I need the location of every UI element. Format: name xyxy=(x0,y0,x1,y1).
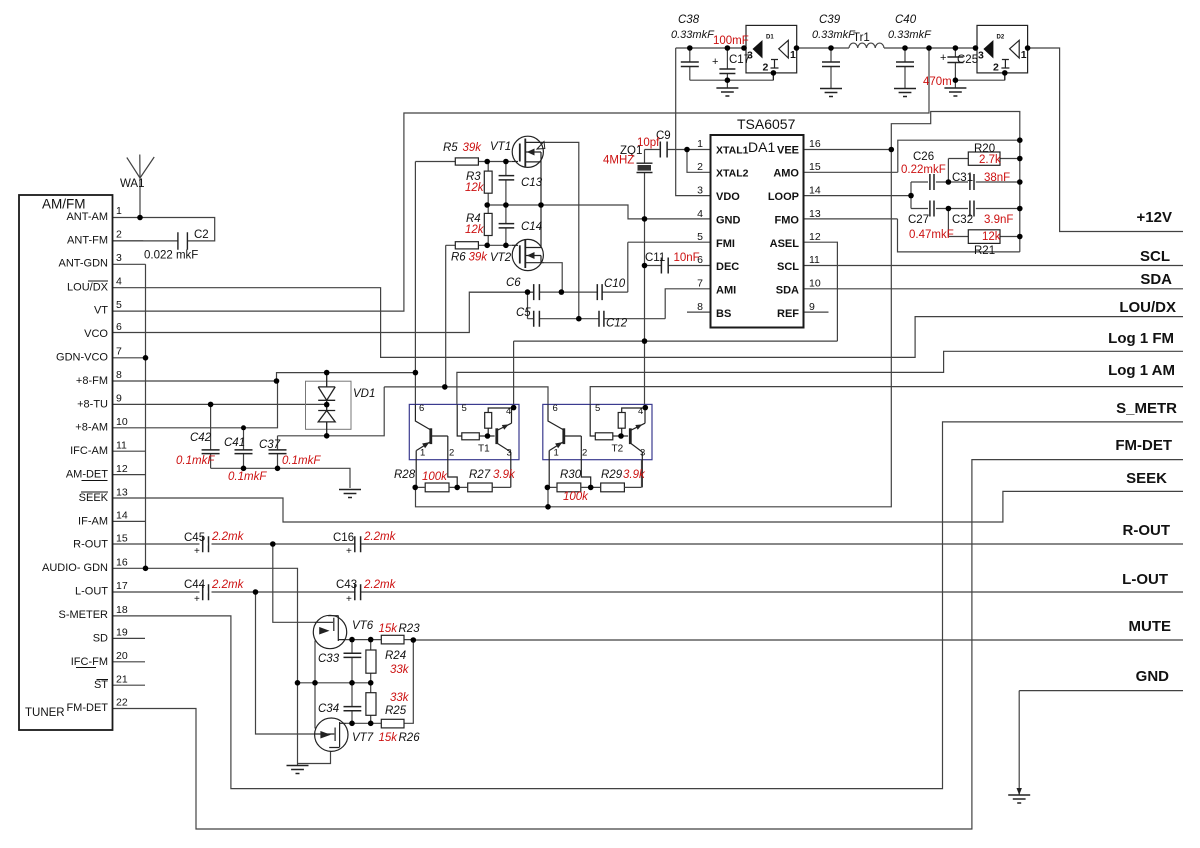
svg-text:C42: C42 xyxy=(190,432,212,444)
svg-text:R21: R21 xyxy=(974,245,995,257)
svg-text:3.9nF: 3.9nF xyxy=(984,214,1013,226)
svg-text:6: 6 xyxy=(419,403,424,414)
svg-text:Tr1: Tr1 xyxy=(853,32,870,44)
svg-text:BS: BS xyxy=(716,308,731,320)
svg-text:3: 3 xyxy=(697,185,703,197)
svg-text:SDA: SDA xyxy=(776,285,799,297)
svg-text:0.33mkF: 0.33mkF xyxy=(812,29,856,41)
svg-text:+: + xyxy=(712,56,718,68)
svg-text:39k: 39k xyxy=(469,252,489,264)
svg-text:LOU/DX: LOU/DX xyxy=(67,282,109,294)
svg-text:FMO: FMO xyxy=(775,215,800,227)
svg-text:C11: C11 xyxy=(645,252,665,264)
svg-text:VT: VT xyxy=(94,305,108,317)
svg-text:33k: 33k xyxy=(390,692,410,704)
svg-text:R29: R29 xyxy=(601,469,623,481)
svg-text:14: 14 xyxy=(116,510,128,522)
svg-text:LOOP: LOOP xyxy=(768,191,799,203)
svg-text:+: + xyxy=(194,594,200,605)
svg-text:R23: R23 xyxy=(399,623,421,635)
svg-text:+: + xyxy=(194,546,200,557)
svg-text:8: 8 xyxy=(116,369,122,381)
svg-text:IFC-AM: IFC-AM xyxy=(70,445,108,457)
svg-text:15: 15 xyxy=(809,161,821,173)
svg-text:4: 4 xyxy=(638,406,643,417)
svg-text:C38: C38 xyxy=(678,14,700,26)
svg-text:ST: ST xyxy=(94,679,108,691)
svg-text:4: 4 xyxy=(697,208,703,220)
svg-text:R24: R24 xyxy=(385,650,406,662)
svg-text:6: 6 xyxy=(116,321,122,333)
svg-text:+: + xyxy=(940,52,946,64)
svg-text:R-OUT: R-OUT xyxy=(1123,522,1171,539)
svg-text:2.2mk: 2.2mk xyxy=(211,531,245,543)
svg-text:0.1mkF: 0.1mkF xyxy=(228,471,267,483)
svg-text:0.47mkF: 0.47mkF xyxy=(909,229,954,241)
svg-text:XTAL1: XTAL1 xyxy=(716,145,749,157)
svg-text:0.22mkF: 0.22mkF xyxy=(901,164,946,176)
svg-text:VCO: VCO xyxy=(84,328,108,340)
svg-text:T2: T2 xyxy=(612,444,624,455)
svg-text:3: 3 xyxy=(116,252,122,264)
svg-text:C45: C45 xyxy=(184,532,205,544)
svg-text:R25: R25 xyxy=(385,705,407,717)
svg-text:C25: C25 xyxy=(957,54,978,66)
svg-text:12: 12 xyxy=(116,463,128,475)
svg-text:T1: T1 xyxy=(478,444,490,455)
svg-text:AM/FM: AM/FM xyxy=(42,197,86,212)
svg-text:2: 2 xyxy=(763,62,769,74)
svg-text:12k: 12k xyxy=(982,231,1001,243)
svg-text:16: 16 xyxy=(809,138,821,150)
svg-text:S_METR: S_METR xyxy=(1116,400,1177,417)
svg-text:20: 20 xyxy=(116,650,128,662)
svg-text:5: 5 xyxy=(595,403,600,414)
svg-text:5: 5 xyxy=(116,299,122,311)
svg-text:VEE: VEE xyxy=(777,145,799,157)
svg-text:DEC: DEC xyxy=(716,261,739,273)
svg-text:C44: C44 xyxy=(184,579,206,591)
svg-text:IF-AM: IF-AM xyxy=(78,516,108,528)
svg-text:S-METER: S-METER xyxy=(59,609,109,621)
svg-text:0.022 mkF: 0.022 mkF xyxy=(144,249,198,261)
svg-text:SDA: SDA xyxy=(1140,271,1172,288)
svg-text:18: 18 xyxy=(116,604,128,616)
svg-text:+12V: +12V xyxy=(1137,209,1172,226)
svg-text:0.33mkF: 0.33mkF xyxy=(671,29,715,41)
svg-text:R28: R28 xyxy=(394,469,416,481)
svg-text:12k: 12k xyxy=(465,182,485,194)
svg-text:2.7k: 2.7k xyxy=(979,154,1001,166)
svg-text:9: 9 xyxy=(116,393,122,405)
svg-text:XTAL2: XTAL2 xyxy=(716,168,749,180)
svg-text:IFC-FM: IFC-FM xyxy=(71,656,108,668)
svg-text:15k: 15k xyxy=(379,623,399,635)
svg-text:TSA6057: TSA6057 xyxy=(737,116,796,132)
svg-text:ANT-FM: ANT-FM xyxy=(67,235,108,247)
svg-text:10nF: 10nF xyxy=(674,252,700,264)
svg-text:14: 14 xyxy=(809,185,821,197)
svg-text:C32: C32 xyxy=(952,214,973,226)
svg-text:21: 21 xyxy=(116,674,128,686)
svg-text:D2: D2 xyxy=(997,35,1005,41)
svg-text:REF: REF xyxy=(777,308,799,320)
svg-text:2: 2 xyxy=(697,161,703,173)
svg-text:6: 6 xyxy=(553,403,558,414)
svg-text:5: 5 xyxy=(697,231,703,243)
svg-text:12k: 12k xyxy=(465,224,485,236)
svg-text:C5: C5 xyxy=(516,307,531,319)
svg-text:ASEL: ASEL xyxy=(770,238,800,250)
svg-text:VT6: VT6 xyxy=(352,620,374,632)
svg-text:4: 4 xyxy=(116,276,122,288)
svg-text:100k: 100k xyxy=(422,471,448,483)
svg-text:13: 13 xyxy=(809,208,821,220)
svg-text:C31: C31 xyxy=(952,172,973,184)
svg-text:SCL: SCL xyxy=(1140,248,1170,265)
svg-text:+8-TU: +8-TU xyxy=(77,399,108,411)
svg-text:9: 9 xyxy=(809,301,815,313)
svg-text:2.2mk: 2.2mk xyxy=(211,579,245,591)
svg-text:39k: 39k xyxy=(463,142,483,154)
svg-text:100k: 100k xyxy=(563,491,589,503)
svg-text:15k: 15k xyxy=(379,732,399,744)
svg-text:SEEK: SEEK xyxy=(79,492,109,504)
svg-text:1: 1 xyxy=(420,448,425,459)
svg-text:3: 3 xyxy=(507,448,512,459)
svg-text:C10: C10 xyxy=(604,278,626,290)
svg-text:19: 19 xyxy=(116,627,128,639)
svg-text:GDN-VCO: GDN-VCO xyxy=(56,352,108,364)
svg-text:GND: GND xyxy=(716,215,741,227)
svg-text:2: 2 xyxy=(116,229,122,241)
svg-text:1: 1 xyxy=(1021,49,1027,61)
svg-text:3: 3 xyxy=(640,448,645,459)
svg-text:VT1: VT1 xyxy=(490,141,511,153)
svg-text:1: 1 xyxy=(554,448,559,459)
svg-text:WA1: WA1 xyxy=(120,178,145,190)
svg-text:3.9k: 3.9k xyxy=(623,469,646,481)
svg-text:LOU/DX: LOU/DX xyxy=(1119,299,1176,316)
svg-text:R30: R30 xyxy=(560,469,582,481)
svg-text:+: + xyxy=(346,594,352,605)
svg-text:ANT-GDN: ANT-GDN xyxy=(59,258,109,270)
svg-text:AM-DET: AM-DET xyxy=(66,469,108,481)
svg-text:3: 3 xyxy=(978,50,984,62)
svg-text:DA1: DA1 xyxy=(748,139,775,155)
svg-text:4: 4 xyxy=(506,406,511,417)
svg-text:FM-DET: FM-DET xyxy=(66,702,108,714)
svg-text:AMO: AMO xyxy=(773,168,799,180)
svg-text:2: 2 xyxy=(449,448,454,459)
svg-text:L-OUT: L-OUT xyxy=(75,586,108,598)
svg-text:FM-DET: FM-DET xyxy=(1115,437,1172,454)
svg-text:470m: 470m xyxy=(923,76,952,88)
svg-text:R27: R27 xyxy=(469,469,491,481)
svg-text:C34: C34 xyxy=(318,703,339,715)
svg-text:10: 10 xyxy=(809,278,821,290)
svg-text:+8-AM: +8-AM xyxy=(75,422,108,434)
svg-text:C39: C39 xyxy=(819,14,841,26)
svg-text:10: 10 xyxy=(116,416,128,428)
svg-text:D1: D1 xyxy=(766,35,774,41)
svg-text:SCL: SCL xyxy=(777,261,799,273)
svg-text:VDO: VDO xyxy=(716,191,740,203)
svg-text:Log 1 AM: Log 1 AM xyxy=(1108,362,1175,379)
svg-text:VD1: VD1 xyxy=(353,388,375,400)
svg-text:5: 5 xyxy=(462,403,467,414)
svg-text:C26: C26 xyxy=(913,151,934,163)
svg-text:C27: C27 xyxy=(908,214,929,226)
svg-text:12: 12 xyxy=(809,231,821,243)
svg-text:C6: C6 xyxy=(506,277,521,289)
svg-text:1: 1 xyxy=(116,205,122,217)
svg-text:C40: C40 xyxy=(895,14,917,26)
svg-text:C14: C14 xyxy=(521,221,542,233)
svg-text:MUTE: MUTE xyxy=(1129,618,1172,635)
svg-text:4MHZ: 4MHZ xyxy=(603,155,634,167)
svg-text:L-OUT: L-OUT xyxy=(1122,571,1168,588)
svg-text:3.9k: 3.9k xyxy=(493,469,516,481)
svg-text:11: 11 xyxy=(116,440,127,452)
svg-text:2.2mk: 2.2mk xyxy=(363,579,397,591)
svg-text:AUDIO- GDN: AUDIO- GDN xyxy=(42,562,108,574)
svg-text:GND: GND xyxy=(1136,668,1170,685)
svg-text:100mF: 100mF xyxy=(713,35,749,47)
svg-text:C37: C37 xyxy=(259,439,281,451)
svg-text:22: 22 xyxy=(116,697,128,709)
svg-text:7: 7 xyxy=(116,346,122,358)
svg-text:R6: R6 xyxy=(451,252,466,264)
svg-text:SEEK: SEEK xyxy=(1126,470,1167,487)
svg-text:FMI: FMI xyxy=(716,238,735,250)
svg-text:C2: C2 xyxy=(194,229,209,241)
svg-text:+: + xyxy=(346,546,352,557)
svg-text:Log 1 FM: Log 1 FM xyxy=(1108,330,1174,347)
svg-text:C16: C16 xyxy=(333,532,354,544)
svg-text:C13: C13 xyxy=(521,177,543,189)
svg-text:11: 11 xyxy=(809,254,820,266)
svg-text:33k: 33k xyxy=(390,664,410,676)
svg-text:R5: R5 xyxy=(443,142,458,154)
svg-text:2.2mk: 2.2mk xyxy=(363,531,397,543)
svg-text:0.33mkF: 0.33mkF xyxy=(888,29,932,41)
svg-text:AMI: AMI xyxy=(716,285,736,297)
svg-text:8: 8 xyxy=(697,301,703,313)
svg-text:15: 15 xyxy=(116,533,128,545)
svg-text:+8-FM: +8-FM xyxy=(76,375,108,387)
svg-text:0.1mkF: 0.1mkF xyxy=(282,455,321,467)
svg-text:7: 7 xyxy=(697,278,703,290)
svg-text:TUNER: TUNER xyxy=(25,707,65,719)
svg-text:17: 17 xyxy=(116,580,128,592)
svg-text:38nF: 38nF xyxy=(984,172,1010,184)
svg-text:VT7: VT7 xyxy=(352,732,374,744)
svg-text:SD: SD xyxy=(93,633,108,645)
svg-text:13: 13 xyxy=(116,487,128,499)
svg-text:ANT-AM: ANT-AM xyxy=(66,211,108,223)
svg-text:0.1mkF: 0.1mkF xyxy=(176,455,215,467)
svg-text:C43: C43 xyxy=(336,579,357,591)
svg-text:VT2: VT2 xyxy=(490,252,512,264)
svg-text:1: 1 xyxy=(697,138,703,150)
svg-text:16: 16 xyxy=(116,557,128,569)
svg-text:C12: C12 xyxy=(606,318,628,330)
svg-text:3: 3 xyxy=(747,50,753,62)
svg-text:C33: C33 xyxy=(318,653,340,665)
svg-text:R26: R26 xyxy=(399,732,421,744)
svg-text:2: 2 xyxy=(993,62,999,74)
svg-text:1: 1 xyxy=(790,49,796,61)
svg-text:2: 2 xyxy=(582,448,587,459)
svg-text:R-OUT: R-OUT xyxy=(73,539,108,551)
svg-text:C41: C41 xyxy=(224,437,245,449)
